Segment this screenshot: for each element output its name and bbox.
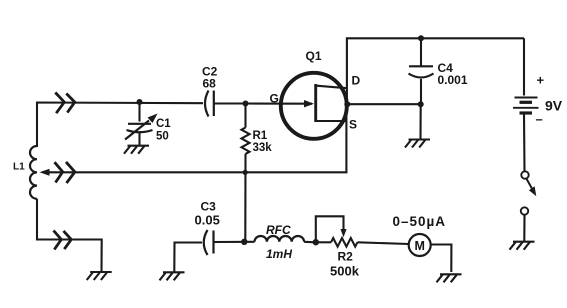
ground bottom left	[87, 272, 112, 280]
ground below C4	[405, 140, 430, 148]
wire bottom tap to ground	[37, 199, 102, 272]
svg-text:Q1: Q1	[306, 49, 322, 63]
svg-text:RFC: RFC	[266, 223, 291, 237]
inductor L1	[13, 146, 37, 199]
node C1 junction on gate line	[137, 99, 143, 105]
svg-text:L1: L1	[13, 162, 25, 173]
svg-text:+: +	[537, 73, 545, 88]
wire meter to ground	[431, 245, 452, 273]
svg-text:33k: 33k	[253, 142, 273, 154]
capacitor C2 68	[202, 65, 218, 117]
ground below switch	[510, 242, 535, 250]
transistor Q1	[246, 49, 361, 139]
node gate junction	[243, 101, 249, 107]
node Q1 right	[344, 101, 350, 107]
wire R2 to meter	[357, 242, 408, 244]
svg-text:–: –	[536, 112, 543, 127]
svg-text:9V: 9V	[545, 98, 563, 114]
svg-text:S: S	[349, 118, 357, 132]
ground below meter	[437, 274, 462, 282]
svg-text:50: 50	[156, 131, 169, 143]
inductor RFC 1mH	[255, 223, 317, 261]
svg-text:R2: R2	[338, 250, 354, 264]
wire Q1 node to C4 bottom	[347, 103, 420, 105]
wire C4 junction to ground	[419, 104, 421, 139]
battery 9V	[513, 38, 563, 171]
node RFC left junction	[241, 239, 247, 245]
node RFC right junction	[313, 239, 319, 245]
wire source line to L1 tap	[40, 104, 347, 176]
svg-text:0.05: 0.05	[195, 213, 220, 228]
connector top plug-in chevrons	[55, 93, 75, 114]
svg-text:500k: 500k	[330, 264, 360, 279]
wire drain to +9V rail	[347, 38, 524, 104]
capacitor C3 0.05	[195, 200, 220, 256]
wire R1 bottom to RFC junction	[244, 154, 246, 242]
node rail C4 junction	[418, 35, 424, 41]
wire C3 right to RFC	[214, 241, 255, 243]
meter M 0-50uA	[393, 214, 447, 256]
resistor R2 500k potentiometer	[316, 216, 360, 278]
svg-text:68: 68	[203, 77, 217, 91]
svg-text:1mH: 1mH	[266, 247, 292, 261]
connector bottom plug-in chevrons	[54, 231, 72, 250]
node C4 bottom junction	[418, 101, 424, 107]
resistor R1 33k	[242, 104, 273, 155]
svg-text:M: M	[415, 239, 425, 253]
svg-text:0–50µA: 0–50µA	[393, 214, 447, 229]
capacitor C1 variable 50	[125, 102, 171, 146]
svg-text:D: D	[352, 74, 361, 88]
switch S1	[521, 171, 537, 214]
svg-text:C1: C1	[156, 118, 171, 130]
svg-text:G: G	[270, 92, 279, 106]
wire C3 left to ground	[174, 243, 202, 273]
ground below C3	[160, 272, 185, 280]
connector middle plug-in chevrons	[55, 162, 75, 183]
capacitor C4 0.001	[409, 38, 468, 104]
wire C2 to gate junction	[214, 102, 246, 104]
wire switch to ground	[523, 215, 525, 242]
svg-text:R1: R1	[253, 130, 268, 142]
svg-text:C3: C3	[201, 200, 217, 214]
ground below C1	[124, 146, 149, 154]
node R1 crossing source line	[243, 170, 248, 175]
svg-text:0.001: 0.001	[438, 73, 468, 87]
wire gate line from L1 top to C2	[37, 103, 203, 148]
